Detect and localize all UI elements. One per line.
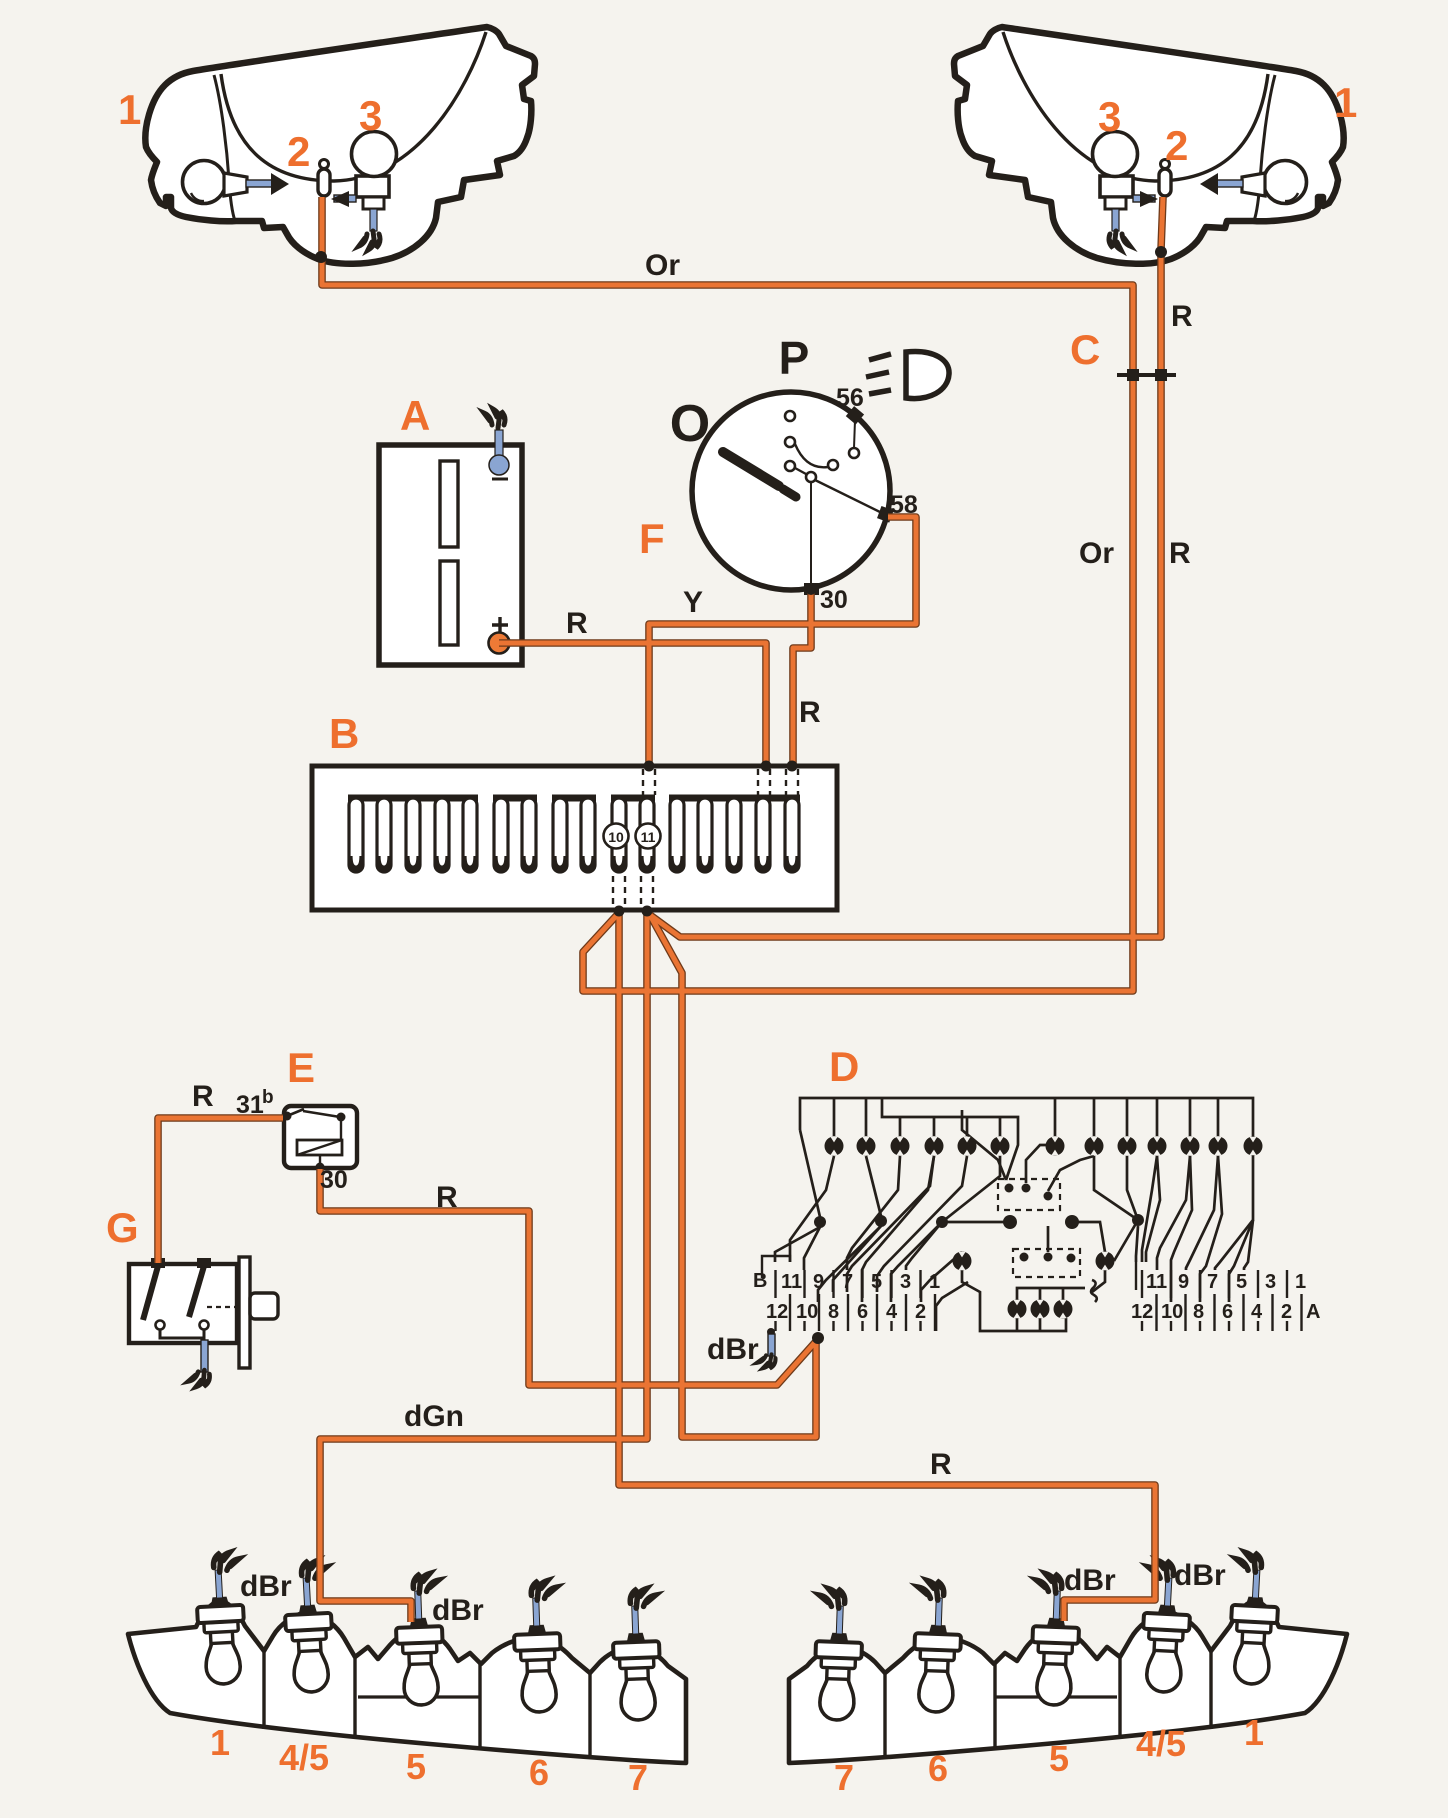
svg-text:B: B (329, 710, 359, 757)
dashed internal connections (613, 769, 798, 907)
svg-text:3: 3 (1265, 1271, 1276, 1293)
wire dGn: fuse 11 to left tail cluster (320, 913, 647, 1622)
svg-text:11: 11 (1146, 1271, 1167, 1293)
svg-text:5: 5 (1236, 1271, 1247, 1293)
battery A (379, 409, 522, 665)
panel pin numbers (right block) (1131, 1271, 1320, 1323)
panel pin numbers (left block) (753, 1270, 940, 1323)
svg-text:31: 31 (236, 1091, 264, 1119)
relay E (283, 1106, 358, 1172)
svg-text:1: 1 (1295, 1271, 1306, 1293)
connector pin 2 (320, 160, 329, 169)
bulb 3 socket (356, 176, 389, 197)
hook symbol (1091, 1280, 1097, 1302)
svg-text:6: 6 (928, 1748, 948, 1789)
svg-text:R: R (1171, 300, 1193, 333)
svg-text:10: 10 (608, 829, 624, 845)
sockets 1,4/5,5,6,7 (194, 1548, 247, 1685)
relay coil (297, 1140, 342, 1155)
wire R: battery + to fuse box (499, 643, 766, 764)
fuses 1-9 (349, 798, 363, 872)
switch lever (723, 452, 779, 486)
svg-text:1: 1 (1244, 1712, 1264, 1753)
right fan traces (1142, 1156, 1157, 1262)
svg-text:2: 2 (1165, 122, 1188, 169)
svg-text:4/5: 4/5 (279, 1737, 329, 1778)
svg-text:Or: Or (645, 249, 680, 282)
wire labels (192, 249, 1226, 1627)
svg-text:11: 11 (781, 1271, 802, 1293)
svg-text:2: 2 (287, 128, 310, 175)
tail lamp cluster (right, mirrored) (789, 1548, 1347, 1763)
svg-text:b: b (262, 1087, 274, 1108)
inner bus (882, 1098, 1018, 1180)
lamp feed stubs (834, 1098, 1218, 1136)
svg-text:30: 30 (820, 586, 848, 614)
dBr ground stub at panel (756, 1328, 777, 1371)
svg-text:R: R (930, 1448, 952, 1481)
svg-text:5: 5 (406, 1746, 426, 1787)
svg-text:12: 12 (766, 1301, 788, 1323)
svg-text:A: A (1306, 1301, 1320, 1323)
svg-text:5: 5 (871, 1271, 882, 1293)
svg-text:1: 1 (929, 1271, 940, 1293)
svg-text:dBr: dBr (1174, 1559, 1226, 1592)
svg-text:1: 1 (1334, 79, 1357, 126)
gauge dashed boxes (998, 1179, 1080, 1277)
terminal 58 (877, 506, 894, 523)
fuse number bubbles (604, 824, 629, 849)
parking bulb base (224, 173, 247, 196)
terminal 30 (804, 583, 819, 595)
light switch O/P (692, 352, 949, 595)
tail lamp cluster (left) (128, 1548, 686, 1763)
svg-text:6: 6 (1222, 1301, 1233, 1323)
connector pin rows (left block) (762, 1256, 935, 1331)
svg-text:7: 7 (1207, 1271, 1218, 1293)
svg-text:9: 9 (813, 1271, 824, 1293)
svg-text:O: O (670, 395, 710, 453)
terminal 56 (846, 406, 864, 424)
connector C tick (1117, 369, 1176, 381)
G ground lead (201, 1340, 208, 1372)
parking bulb (small, chamber 1) (183, 161, 226, 204)
switch G (129, 1257, 278, 1389)
svg-text:R: R (1169, 537, 1191, 570)
svg-text:8: 8 (828, 1301, 839, 1323)
svg-text:B: B (753, 1270, 767, 1292)
wire R: fuse 11 to panel pin (650, 915, 816, 1437)
svg-text:1: 1 (118, 86, 141, 133)
battery positive terminal (492, 617, 508, 633)
svg-text:dBr: dBr (240, 1570, 292, 1603)
instrument panel D (775, 1098, 1253, 1331)
svg-text:Or: Or (1079, 537, 1114, 570)
svg-text:A: A (400, 392, 430, 439)
svg-text:10: 10 (1161, 1301, 1183, 1323)
svg-text:R: R (192, 1080, 214, 1113)
svg-text:C: C (1070, 326, 1100, 373)
wire Y: fuse 11 top to switch 58 (649, 517, 916, 764)
reflector bowl arc (221, 32, 486, 181)
blue lead to pin 2 (334, 195, 356, 202)
svg-text:E: E (287, 1044, 315, 1091)
svg-text:R: R (566, 607, 588, 640)
battery negative terminal (495, 430, 503, 458)
contact links (795, 444, 828, 467)
svg-text:1: 1 (210, 1722, 230, 1763)
svg-text:8: 8 (1193, 1301, 1204, 1323)
lower panel lamps (953, 1252, 972, 1271)
svg-text:2: 2 (915, 1301, 926, 1323)
svg-text:56: 56 (836, 384, 864, 412)
svg-text:4: 4 (886, 1301, 898, 1323)
svg-text:9: 9 (1178, 1271, 1189, 1293)
wire R: switch 30 to fuse box (793, 593, 811, 764)
svg-text:12: 12 (1131, 1301, 1153, 1323)
terminal labels (236, 384, 918, 1194)
tail cluster labels (210, 1712, 1264, 1798)
bulb 3 ground lead (370, 209, 377, 231)
svg-text:3: 3 (359, 92, 382, 139)
svg-text:30: 30 (320, 1166, 348, 1194)
svg-text:R: R (436, 1181, 458, 1214)
svg-text:F: F (639, 515, 665, 562)
wire cores (158, 197, 1163, 1622)
svg-text:R: R (799, 696, 821, 729)
headlight beam icon (906, 352, 949, 399)
headlamp assembly 1 (left) (145, 27, 535, 264)
left fan traces (800, 1130, 820, 1217)
svg-text:10: 10 (796, 1301, 818, 1323)
wire underlays (158, 197, 1163, 1622)
svg-text:58: 58 (890, 491, 918, 519)
middle gauge traces (962, 1110, 1006, 1180)
section labels (106, 79, 1357, 1251)
fuse 10 and 11 (612, 798, 626, 872)
svg-text:D: D (829, 1043, 859, 1090)
fuses 12-16 (670, 798, 684, 872)
headlight bulb 3 (352, 132, 397, 177)
fuse group bars (348, 795, 800, 802)
wire R: fuse 10 to right tail cluster (619, 913, 1155, 1621)
svg-text:2: 2 (1281, 1301, 1292, 1323)
svg-text:4/5: 4/5 (1136, 1723, 1186, 1764)
svg-text:dBr: dBr (432, 1594, 484, 1627)
wire R: relay 30 to panel pin (320, 1169, 818, 1385)
svg-text:6: 6 (529, 1752, 549, 1793)
svg-text:3: 3 (900, 1271, 911, 1293)
top bus (800, 1098, 1253, 1136)
svg-text:7: 7 (842, 1271, 853, 1293)
svg-text:5: 5 (1049, 1738, 1069, 1779)
wire Or: left lamp pin2 to right vertical to fuse 10 (322, 197, 1133, 991)
wire R: G to relay 31b (158, 1118, 283, 1263)
contact row (785, 411, 795, 421)
svg-text:6: 6 (857, 1301, 868, 1323)
fuse box B (312, 766, 837, 910)
connector pin rows (right block) (1136, 1262, 1302, 1331)
svg-text:7: 7 (628, 1757, 648, 1798)
svg-text:3: 3 (1098, 93, 1121, 140)
headlamp assembly 1 (right, mirrored) (954, 27, 1344, 264)
blue lead with arrow (246, 180, 272, 187)
svg-text:11: 11 (641, 829, 656, 845)
svg-text:dBr: dBr (707, 1333, 759, 1366)
junction dots in D (814, 1184, 1144, 1263)
svg-text:dGn: dGn (404, 1400, 464, 1433)
svg-text:dBr: dBr (1064, 1564, 1116, 1597)
svg-text:Y: Y (683, 586, 703, 619)
wire R: right lamp pin2 down to fuse 11 (650, 197, 1163, 937)
svg-text:4: 4 (1251, 1301, 1263, 1323)
panel lamps row (825, 1137, 844, 1156)
chamber divider line (214, 75, 235, 221)
svg-text:7: 7 (834, 1757, 854, 1798)
svg-text:G: G (106, 1204, 139, 1251)
svg-text:P: P (779, 332, 810, 384)
